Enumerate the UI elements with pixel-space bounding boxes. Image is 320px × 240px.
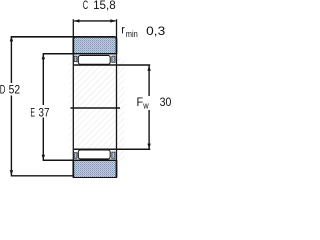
label Fw 30 halo — [136, 96, 173, 110]
ring2 top edge / dimension E bottom reference line — [43, 159, 117, 161]
dimension C right arrow — [110, 19, 115, 22]
dimension E top arrow — [42, 54, 45, 59]
dimension Fw line upper segment — [148, 66, 150, 97]
dimension C line — [74, 20, 115, 22]
dimension D bottom reference line — [11, 175, 73, 177]
shaft hatch in bore — [74, 66, 116, 148]
dimension E line upper segment — [42, 54, 44, 105]
svg-text:37: 37 — [39, 106, 50, 120]
dimension Fw line lower segment — [148, 110, 150, 149]
svg-text:15,8: 15,8 — [93, 0, 116, 12]
svg-text:w: w — [142, 101, 149, 111]
svg-text:E: E — [30, 106, 35, 120]
outer ring upper section fill — [73, 37, 116, 54]
label E 37 halo — [29, 105, 51, 118]
dimension D line upper segment — [10, 36, 12, 83]
cage band1 bottom edge / Fw top reference line — [74, 64, 150, 66]
dimension D bottom arrow — [10, 170, 13, 175]
svg-text:r: r — [121, 25, 125, 37]
cage band upper white — [74, 55, 116, 65]
cage section square lower-left — [74, 153, 77, 159]
dimension C left arrow — [74, 19, 79, 22]
svg-text:52: 52 — [9, 83, 21, 97]
label D 52 halo — [0, 83, 21, 96]
cage section square upper-left — [74, 56, 77, 62]
ring1 top edge / dimension D top reference line — [11, 36, 114, 38]
upper ring outline — [73, 37, 116, 54]
svg-text:30: 30 — [160, 95, 172, 109]
svg-text:C: C — [83, 0, 89, 12]
cage section square upper-right — [112, 56, 115, 62]
svg-text:0,3: 0,3 — [146, 24, 165, 38]
svg-text:D: D — [0, 83, 6, 97]
housing hatch strip left of bearing — [69, 58, 73, 160]
outer ring lower section fill — [73, 160, 116, 178]
bearing left edge + C left extension line — [72, 19, 74, 177]
svg-text:F: F — [137, 95, 144, 109]
dimension Fw top arrow — [147, 66, 150, 71]
axis line — [71, 107, 121, 109]
bearing right edge + C right extension line — [116, 19, 118, 177]
dimension D top arrow — [10, 36, 13, 41]
ring2 bottom edge — [73, 160, 116, 178]
dimension Fw bottom arrow — [147, 144, 150, 149]
housing hatch strip right of bearing — [117, 58, 125, 160]
dimension E line lower segment — [42, 118, 44, 160]
needle roller upper — [78, 55, 110, 64]
cage band2 top edge / Fw bottom reference line — [74, 148, 150, 150]
cage section square lower-right — [112, 152, 115, 158]
ring1 bottom edge / dimension E top reference line — [43, 53, 117, 55]
needle roller lower — [78, 150, 110, 159]
dimension D line lower segment — [10, 96, 12, 176]
cage band lower white — [74, 150, 116, 160]
svg-text:min: min — [126, 29, 138, 39]
dimension E bottom arrow — [42, 155, 45, 160]
